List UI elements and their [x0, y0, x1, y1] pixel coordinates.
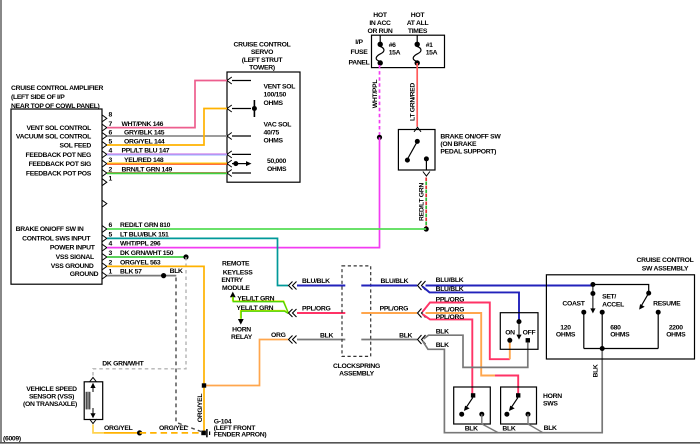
wire BLU/BLK to cruise switch assembly: [426, 285, 593, 287]
connector chevrons PPL/ORG row: [289, 309, 297, 317]
OFF contact square: [526, 338, 530, 342]
left horn switch ground diagonal: [482, 424, 498, 433]
svg-text:2: 2: [109, 259, 113, 266]
left horn switch contacts: [459, 393, 484, 424]
svg-text:HORN: HORN: [543, 393, 562, 400]
svg-text:PPL/ORG: PPL/ORG: [436, 314, 465, 321]
svg-text:#6: #6: [389, 42, 396, 49]
svg-text:WHT/PPL 296: WHT/PPL 296: [120, 241, 161, 248]
svg-text:ORG/YEL: ORG/YEL: [197, 394, 204, 423]
wire PPL/ORG branch to left horn switch: [423, 314, 473, 393]
svg-text:ACCEL: ACCEL: [602, 302, 624, 309]
LT GRN/RED label rotated: [410, 83, 417, 121]
cruise control amplifier box: [11, 109, 102, 284]
fuse #1 15A: [413, 35, 437, 65]
hot at all times label: [407, 12, 429, 35]
wire WHT/PPL dashed from fuse 6: [379, 65, 381, 137]
wire ORG/YEL solid to splice: [104, 432, 140, 434]
svg-text:RESUME: RESUME: [653, 301, 681, 308]
svg-text:BRAKE ON/OFF SW: BRAKE ON/OFF SW: [440, 134, 501, 141]
svg-text:HOT: HOT: [411, 12, 426, 19]
resume fixed contact: [656, 310, 661, 349]
amplifier lower pin labels inside box: [16, 226, 99, 278]
svg-text:REMOTE: REMOTE: [222, 261, 250, 268]
svg-text:VACUUM SOL CONTROL: VACUUM SOL CONTROL: [16, 134, 91, 141]
svg-text:DK GRN/WHT 150: DK GRN/WHT 150: [120, 250, 174, 257]
amplifier upper pin labels inside box: [16, 125, 92, 177]
svg-text:3: 3: [109, 250, 113, 257]
wire BLK right of clockspring: [361, 339, 417, 341]
ON contact dot: [507, 338, 512, 343]
junction dot RED/LT GRN: [424, 226, 429, 231]
ORG/YEL rotated label: [197, 394, 204, 423]
wire DK GRN/WHT dashed to VSS: [93, 257, 186, 377]
svg-text:1: 1: [109, 269, 113, 276]
ground G-104 bars: [207, 429, 210, 437]
svg-text:PEDAL SUPPORT): PEDAL SUPPORT): [440, 149, 496, 156]
left horn switch box: [454, 387, 491, 424]
SET/ACCEL label: [602, 294, 624, 309]
svg-text:50,000: 50,000: [267, 158, 287, 165]
rail junction dot: [600, 346, 605, 351]
svg-text:FUSE: FUSE: [351, 49, 369, 56]
svg-text:BLK: BLK: [593, 364, 600, 377]
cruise control amplifier title: [11, 85, 104, 110]
hot in acc or run label: [367, 12, 392, 35]
svg-text:PPL/ORG: PPL/ORG: [302, 305, 331, 312]
svg-text:NEAR TOP OF COWL PANEL): NEAR TOP OF COWL PANEL): [11, 103, 100, 110]
connector chevrons PPL/ORG second: [418, 309, 426, 318]
svg-text:ASSEMBLY: ASSEMBLY: [339, 371, 375, 378]
wire BRN/LT GRN 149 pin2 to servo: [107, 172, 227, 175]
resistor rail: [584, 348, 658, 350]
wire RED/LT GRN dashed two-tone down from brake switch: [425, 178, 427, 230]
wire YEL/RED 148 pin3 to servo: [107, 163, 227, 164]
connector chevrons BLU/BLK row: [289, 282, 297, 290]
svg-text:BLK: BLK: [399, 332, 412, 339]
fuse panel label: [348, 39, 369, 66]
svg-text:BLU/BLK: BLU/BLK: [436, 286, 464, 293]
svg-text:SWS: SWS: [543, 400, 558, 407]
svg-text:YEL/LT GRN: YEL/LT GRN: [236, 305, 273, 312]
horn sws label: [543, 393, 562, 407]
resume blade arrow: [639, 293, 649, 310]
wire ORG/YEL 144 pin5 to servo: [107, 109, 227, 146]
svg-text:1: 1: [109, 176, 113, 183]
wire BLK branch to ground bus: [423, 341, 603, 433]
svg-text:8: 8: [109, 112, 113, 119]
svg-text:ORG/YEL 563: ORG/YEL 563: [120, 259, 161, 266]
svg-text:15A: 15A: [389, 49, 401, 56]
svg-text:OHMS: OHMS: [556, 332, 576, 339]
svg-text:(LEFT SIDE OF I/P: (LEFT SIDE OF I/P: [11, 94, 65, 101]
brake switch bottom chevron: [423, 172, 430, 177]
svg-text:OHMS: OHMS: [264, 138, 284, 145]
lower wire name labels: [120, 222, 174, 276]
cruise control switch assembly box: [546, 275, 694, 359]
cruise control servo box: [227, 72, 300, 182]
wire BLU/BLK left of clockspring: [297, 285, 345, 287]
WHT/PPL label rotated: [372, 80, 379, 109]
wire PPL/ORG branch to right horn switch (orange run): [426, 313, 496, 376]
svg-text:BLU/BLK: BLU/BLK: [381, 278, 409, 285]
servo vent solenoid junction dot and bar: [252, 100, 257, 117]
RED/LT GRN label rotated: [419, 183, 426, 221]
brake switch label: [440, 134, 501, 156]
svg-text:VSS GROUND: VSS GROUND: [51, 263, 94, 270]
ON contact orange stub: [509, 343, 511, 360]
vss label: [23, 386, 77, 408]
svg-text:5: 5: [109, 231, 113, 238]
svg-text:CONTROL SWS INPUT: CONTROL SWS INPUT: [22, 235, 91, 242]
resume pivot dot: [646, 291, 651, 296]
svg-text:OHMS: OHMS: [666, 332, 686, 339]
svg-text:VAC SOL: VAC SOL: [264, 121, 292, 128]
on/off switch box: [500, 313, 538, 350]
servo connector chevrons: [227, 77, 232, 177]
svg-text:OHMS: OHMS: [610, 332, 630, 339]
svg-text:ORG/YEL: ORG/YEL: [159, 425, 188, 432]
svg-text:ENTRY: ENTRY: [221, 277, 243, 284]
svg-text:VENT SOL: VENT SOL: [264, 84, 296, 91]
resume feed line: [593, 285, 649, 294]
ORG/YEL junction square: [202, 383, 206, 387]
wire PPL/ORG branch to ON contact: [423, 303, 510, 360]
clockspring assembly label: [333, 363, 380, 378]
wire LT GRN/RED fuse 1 to brake switch: [416, 63, 418, 127]
wire ORG/YEL dashed to ground: [140, 432, 201, 434]
wire BLK left of clockspring: [297, 339, 345, 341]
fuse #6 15A: [376, 35, 400, 65]
arrow to horn relay: [238, 319, 244, 325]
svg-text:PANEL: PANEL: [348, 59, 369, 66]
horn relay label: [231, 327, 253, 342]
wire PPL/ORG left of clockspring: [297, 312, 345, 314]
brake switch top chevron: [414, 127, 421, 132]
svg-text:OR RUN: OR RUN: [367, 28, 392, 35]
svg-text:BLK: BLK: [170, 268, 183, 275]
svg-text:120: 120: [560, 324, 571, 331]
clockspring assembly dashed box: [342, 266, 371, 357]
wire ORG/YEL from vss: [93, 425, 104, 433]
svg-text:I/P: I/P: [355, 39, 363, 46]
svg-text:2200: 2200: [669, 324, 683, 331]
svg-text:BLK: BLK: [320, 332, 333, 339]
svg-text:(LEFT STRUT: (LEFT STRUT: [242, 57, 284, 64]
vss internal down arrow: [90, 408, 95, 418]
amplifier lower pin numbers: [109, 222, 113, 276]
connector chevrons BLK/ORG row: [289, 336, 297, 344]
svg-text:AT ALL: AT ALL: [407, 20, 429, 27]
svg-text:MODULE: MODULE: [222, 285, 250, 292]
connector chevrons BLU/BLK second: [418, 281, 426, 290]
right horn switch pink segment: [495, 376, 518, 394]
vss coil lines: [86, 392, 90, 410]
svg-text:COAST: COAST: [562, 301, 585, 308]
svg-text:GROUND: GROUND: [70, 271, 99, 278]
svg-text:VENT SOL CONTROL: VENT SOL CONTROL: [26, 125, 91, 132]
svg-text:BLU/BLK: BLU/BLK: [302, 278, 330, 285]
svg-text:LT BLU/BLK 151: LT BLU/BLK 151: [120, 231, 169, 238]
svg-text:680: 680: [610, 324, 621, 331]
servo internal labels: [264, 84, 296, 174]
svg-text:(ON TRANSAXLE): (ON TRANSAXLE): [23, 401, 77, 408]
wire WHT/PNK 146 pin7 to servo: [107, 81, 227, 128]
svg-text:(ON BRAKE: (ON BRAKE: [440, 141, 477, 148]
amplifier pin connector chevrons upper: [102, 115, 107, 207]
cruise control sw assembly title: [637, 257, 694, 272]
svg-text:40/75: 40/75: [264, 130, 280, 137]
svg-text:CRUISE CONTROL AMPLIFIER: CRUISE CONTROL AMPLIFIER: [11, 85, 104, 92]
G-104 label: [214, 419, 267, 439]
svg-text:ORG/YEL: ORG/YEL: [104, 425, 133, 432]
amplifier upper pin numbers: [109, 112, 113, 183]
680 OHMS label: [610, 324, 630, 338]
cruise control servo title: [234, 42, 291, 72]
wire RED/LT GRN 810 to amplifier pin6: [107, 228, 426, 230]
BLK 57 splice dot: [161, 273, 166, 278]
svg-text:BLK: BLK: [436, 329, 449, 336]
svg-text:SOL FEED: SOL FEED: [60, 143, 92, 150]
DK GRN/WHT splice dot: [183, 254, 188, 259]
wire ORG/YEL 563 from amplifier pin2 to ground: [107, 266, 204, 430]
svg-text:RED/LT GRN: RED/LT GRN: [419, 183, 426, 221]
brake switch contacts and blade: [405, 139, 429, 170]
svg-text:100/150: 100/150: [264, 92, 287, 99]
svg-text:SW ASSEMBLY: SW ASSEMBLY: [642, 265, 689, 272]
svg-text:#1: #1: [426, 42, 433, 49]
svg-text:PPL/ORG: PPL/ORG: [436, 307, 465, 314]
svg-text:RED/LT GRN 810: RED/LT GRN 810: [120, 222, 171, 229]
svg-text:15A: 15A: [426, 49, 438, 56]
svg-text:ON: ON: [505, 330, 515, 337]
amplifier pin connector chevrons lower: [102, 226, 107, 280]
svg-text:KEYLESS: KEYLESS: [223, 269, 253, 276]
ORG/YEL splice dot: [137, 430, 142, 435]
wire GRY/BLK 145 pin6 to servo: [107, 135, 227, 137]
svg-text:6: 6: [109, 222, 113, 229]
I/P fuse panel box: [372, 35, 445, 67]
upper wire name labels: [122, 121, 173, 173]
wire BLU/BLK right of clockspring: [361, 285, 417, 287]
ground G-104 square: [201, 431, 206, 436]
vehicle speed sensor box: [84, 382, 103, 420]
svg-text:VEHICLE SPEED: VEHICLE SPEED: [26, 386, 77, 393]
svg-text:FENDER APRON): FENDER APRON): [214, 431, 267, 438]
svg-text:BLK: BLK: [436, 342, 449, 349]
svg-text:WHT/PPL: WHT/PPL: [372, 80, 379, 109]
brake on/off switch box: [398, 130, 435, 171]
arrow to remote keyless entry module: [230, 292, 236, 298]
svg-text:SET/: SET/: [602, 294, 616, 301]
svg-text:(6009): (6009): [3, 436, 21, 443]
wire YEL/LT GRN to horn relay: [240, 310, 288, 318]
page left border: [0, 0, 2, 443]
wire LT BLU/BLK 151 from amplifier pin5: [107, 238, 288, 285]
svg-text:POWER INPUT: POWER INPUT: [50, 245, 96, 252]
page bottom border: [0, 442, 700, 444]
svg-text:BLK: BLK: [465, 425, 478, 432]
wire BLU/BLK branch to on/off switch: [423, 287, 520, 322]
svg-text:BLK: BLK: [502, 425, 515, 432]
wire BLK 57 from amplifier pin1: [107, 275, 176, 277]
svg-text:BLU/BLK: BLU/BLK: [436, 277, 464, 284]
svg-text:4: 4: [109, 241, 113, 248]
svg-text:LT GRN/RED: LT GRN/RED: [410, 83, 417, 121]
wire PPL/LT BLU 147 pin4 to servo: [107, 154, 227, 155]
svg-text:DK GRN/WHT: DK GRN/WHT: [102, 361, 144, 368]
svg-text:IN ACC: IN ACC: [369, 20, 391, 27]
servo internal stub lines: [232, 81, 251, 174]
connector chevrons BLK second: [418, 335, 426, 344]
svg-text:CRUISE CONTROL: CRUISE CONTROL: [234, 42, 291, 49]
on/off switch blade arrow: [516, 322, 521, 340]
svg-text:SENSOR (VSS): SENSOR (VSS): [29, 394, 74, 401]
svg-text:TOWER): TOWER): [249, 64, 275, 71]
right horn switch box: [501, 387, 537, 424]
svg-text:FEEDBACK POT SIG: FEEDBACK POT SIG: [29, 161, 91, 168]
svg-text:PPL/ORG: PPL/ORG: [380, 306, 409, 313]
svg-text:BLK: BLK: [544, 425, 557, 432]
svg-text:PPL/ORG: PPL/ORG: [436, 296, 465, 303]
set/accel fixed contact: [600, 310, 605, 349]
wire PPL/ORG right of clockspring: [361, 312, 417, 314]
vss internal up arrow: [90, 383, 95, 392]
wire YEL/LT GRN to keyless module: [232, 297, 288, 313]
svg-text:OHMS: OHMS: [264, 100, 284, 107]
coast switch top contact: [590, 285, 595, 314]
120 OHMS label: [556, 324, 576, 338]
servo potentiometer wiper arrow: [232, 161, 252, 166]
svg-text:FEEDBACK POT POS: FEEDBACK POT POS: [26, 171, 92, 178]
svg-text:BRAKE ON/OFF SW IN: BRAKE ON/OFF SW IN: [16, 226, 84, 233]
2200 OHMS label: [666, 324, 686, 338]
svg-text:RELAY: RELAY: [231, 334, 253, 341]
right horn switch contacts: [504, 393, 530, 424]
svg-text:YEL/LT GRN: YEL/LT GRN: [237, 295, 274, 302]
svg-text:TIMES: TIMES: [408, 28, 428, 35]
wire DK GRN/WHT 150 from amplifier pin3: [107, 256, 186, 258]
vss bottom chevron: [90, 419, 97, 424]
svg-text:ORG: ORG: [271, 332, 286, 339]
svg-text:HORN: HORN: [232, 327, 251, 334]
svg-text:FEEDBACK POT NEG: FEEDBACK POT NEG: [26, 152, 91, 159]
svg-text:CRUISE CONTROL: CRUISE CONTROL: [637, 257, 694, 264]
svg-text:BLK 57: BLK 57: [120, 269, 142, 276]
svg-text:OFF: OFF: [523, 330, 536, 337]
wire ORG up from ground junction to chevron: [204, 340, 288, 386]
wire BLK dashed down to ground: [176, 278, 201, 432]
svg-text:OHMS: OHMS: [267, 166, 287, 173]
remote keyless entry module label: [221, 261, 253, 293]
svg-text:HOT: HOT: [373, 12, 388, 19]
right horn switch ground diagonal: [528, 424, 543, 433]
svg-text:VSS SIGNAL: VSS SIGNAL: [56, 254, 94, 261]
splice dot on WHT/PPL: [377, 135, 382, 140]
on/off switch top contact: [517, 319, 522, 324]
wire BLK branch to OFF contact: [424, 335, 528, 367]
vss top chevron: [90, 377, 97, 382]
svg-text:SERVO: SERVO: [251, 49, 273, 56]
blue bus junction dot: [590, 282, 595, 287]
coast fixed contact: [581, 310, 586, 349]
svg-text:CLOCKSPRING: CLOCKSPRING: [333, 363, 380, 370]
BLK rotated label at sw assembly exit: [593, 364, 600, 377]
wire WHT/PPL 296 solid to amplifier pin4: [107, 137, 380, 247]
